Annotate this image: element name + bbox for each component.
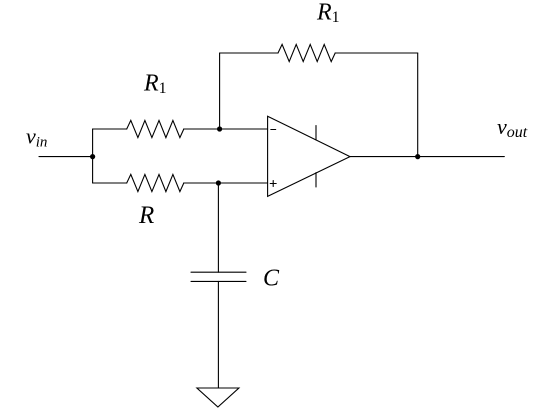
wire to resistor R1 (inverting branch) — [93, 128, 127, 130]
label vout — [497, 114, 528, 141]
wire to resistor R (non-inverting branch) — [93, 182, 127, 184]
node input junction — [90, 154, 95, 159]
label R — [138, 202, 154, 229]
svg-text:vin: vin — [26, 124, 47, 151]
wire feedback right vertical — [417, 53, 419, 157]
svg-text:R: R — [138, 202, 154, 229]
op-amp U1 triangle — [268, 116, 350, 196]
svg-text:C: C — [263, 266, 280, 292]
node output junction — [415, 154, 420, 159]
wire feedback top left — [220, 52, 278, 54]
label C — [263, 266, 280, 292]
node inverting input junction — [217, 126, 222, 131]
wire feedback top right — [335, 52, 418, 54]
wire resistor R to op-amp non-inverting input — [184, 182, 268, 184]
op-amp inverting pin minus sign — [271, 129, 276, 131]
resistor R1 (series, inverting input) — [127, 120, 184, 137]
resistor R1 (feedback) — [278, 44, 335, 61]
wire capacitor bottom — [217, 281, 219, 388]
wire feedback left vertical — [219, 53, 221, 129]
wire op-amp output — [350, 156, 504, 158]
capacitor C plates — [191, 272, 246, 281]
op-amp non-inverting pin plus sign — [270, 181, 276, 187]
wire resistor R1 to op-amp inverting input — [184, 128, 268, 130]
label vin — [26, 124, 47, 151]
op-amp positive supply pin tick — [315, 126, 317, 140]
resistor R (series, non-inverting input) — [127, 174, 184, 191]
svg-text:R1: R1 — [316, 0, 340, 26]
wire input branch vertical — [92, 129, 94, 183]
wire input vin — [39, 156, 93, 158]
wire capacitor top — [217, 183, 219, 272]
svg-text:vout: vout — [497, 114, 528, 141]
svg-text:R1: R1 — [143, 71, 167, 98]
node non-inverting input junction — [216, 180, 221, 185]
label R1 (series inverting) — [143, 71, 167, 98]
op-amp negative supply pin tick — [315, 173, 317, 187]
label R1 (feedback) — [316, 0, 340, 26]
ground — [197, 388, 239, 407]
